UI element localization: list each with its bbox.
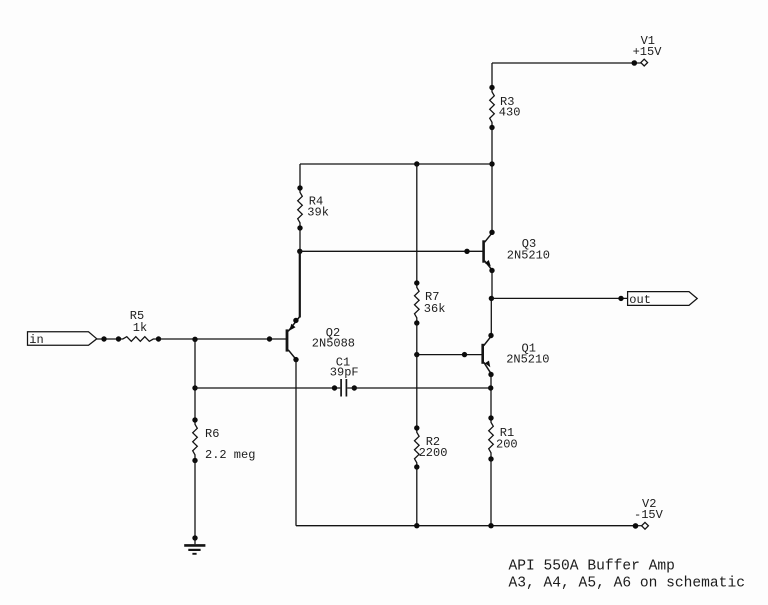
resistor R6 2.2 meg bbox=[192, 417, 255, 463]
node in pin bbox=[101, 336, 106, 341]
port out bbox=[628, 292, 698, 307]
svg-text:+15V: +15V bbox=[633, 45, 663, 59]
node R2 bottom junction bbox=[414, 523, 419, 528]
svg-text:out: out bbox=[629, 293, 651, 307]
wire R7 to R2 bbox=[416, 323, 418, 428]
wire R4 top lead bbox=[299, 164, 301, 188]
transistor Q1 2N5210 bbox=[483, 333, 550, 377]
wire R3 top bbox=[491, 63, 493, 88]
wire R3 bottom to node bbox=[491, 128, 493, 233]
wire R6 to ground bbox=[194, 461, 196, 539]
svg-text:1k: 1k bbox=[133, 321, 147, 335]
node out junction bbox=[489, 296, 494, 301]
transistor Q3 2N5210 bbox=[484, 230, 550, 274]
wire Q3 emitter to out node bbox=[490, 271, 493, 336]
ground bbox=[184, 535, 205, 554]
wire R1 bottom lead bbox=[490, 459, 492, 526]
resistor R5 1k bbox=[116, 309, 161, 342]
node Q1 base pin bbox=[462, 352, 467, 357]
node R1 bottom junction bbox=[488, 523, 493, 528]
node in/R6 junction bbox=[192, 337, 197, 342]
svg-text:2N5088: 2N5088 bbox=[312, 337, 355, 351]
svg-text:2200: 2200 bbox=[419, 446, 448, 460]
svg-text:in: in bbox=[29, 333, 43, 347]
wire C1 rail right bbox=[347, 387, 491, 389]
resistor R3 430 bbox=[489, 85, 520, 130]
svg-text:430: 430 bbox=[499, 105, 521, 119]
svg-text:-15V: -15V bbox=[634, 508, 664, 522]
resistor R1 200 bbox=[488, 415, 517, 461]
wire R6 top bbox=[194, 339, 196, 420]
svg-text:2.2 meg: 2.2 meg bbox=[205, 448, 255, 462]
node out pin bbox=[618, 296, 623, 301]
wire rail y164 bbox=[300, 163, 492, 165]
wire out lead bbox=[491, 297, 627, 299]
node R4/Q2 collector junction bbox=[297, 249, 302, 254]
node Q3 base pin bbox=[464, 249, 469, 254]
node C1 rail/R6 junction bbox=[192, 385, 197, 390]
wire Q2 emitter column bbox=[295, 360, 297, 526]
resistor R4 39k bbox=[297, 185, 329, 230]
capacitor C1 39pF bbox=[330, 356, 359, 397]
node R7/Q1 base junction bbox=[414, 352, 419, 357]
wire bottom rail bbox=[296, 525, 636, 527]
power terminal V1 +15V bbox=[632, 34, 663, 66]
transistor Q2 2N5088 bbox=[287, 251, 355, 362]
svg-text:39pF: 39pF bbox=[330, 366, 359, 380]
wire R2 bottom lead bbox=[416, 467, 418, 526]
wire R7 column top bbox=[416, 164, 418, 283]
node C1 rail/R1 junction bbox=[488, 385, 493, 390]
svg-text:36k: 36k bbox=[424, 302, 446, 316]
svg-text:A3, A4, A5, A6 on schematic: A3, A4, A5, A6 on schematic bbox=[509, 576, 745, 592]
power terminal V2 -15V bbox=[633, 497, 664, 529]
wire R5 to Q2 base bbox=[159, 338, 288, 340]
resistor R2 2200 bbox=[414, 425, 447, 469]
wire C1 rail left bbox=[195, 387, 340, 389]
svg-text:200: 200 bbox=[496, 438, 518, 452]
svg-text:R6: R6 bbox=[205, 427, 219, 441]
wire Q3 base rail bbox=[300, 250, 484, 252]
svg-text:2N5210: 2N5210 bbox=[507, 249, 550, 263]
wire Q1 base rail bbox=[417, 354, 483, 356]
port in bbox=[28, 332, 97, 347]
node Q2 base pin bbox=[267, 336, 272, 341]
svg-text:39k: 39k bbox=[307, 205, 329, 219]
node R3/R4 rail junction bbox=[489, 161, 494, 166]
svg-text:API 550A Buffer Amp: API 550A Buffer Amp bbox=[509, 559, 675, 575]
wire in lead bbox=[97, 338, 119, 340]
wire V1 rail bbox=[492, 62, 634, 64]
svg-text:2N5210: 2N5210 bbox=[506, 353, 549, 367]
title text bbox=[509, 559, 745, 592]
wire Q1 emitter to R1 bbox=[490, 375, 492, 419]
wire R4 bottom lead bbox=[299, 228, 301, 252]
resistor R7 36k bbox=[414, 280, 445, 325]
node rail/R7 column bbox=[414, 161, 419, 166]
